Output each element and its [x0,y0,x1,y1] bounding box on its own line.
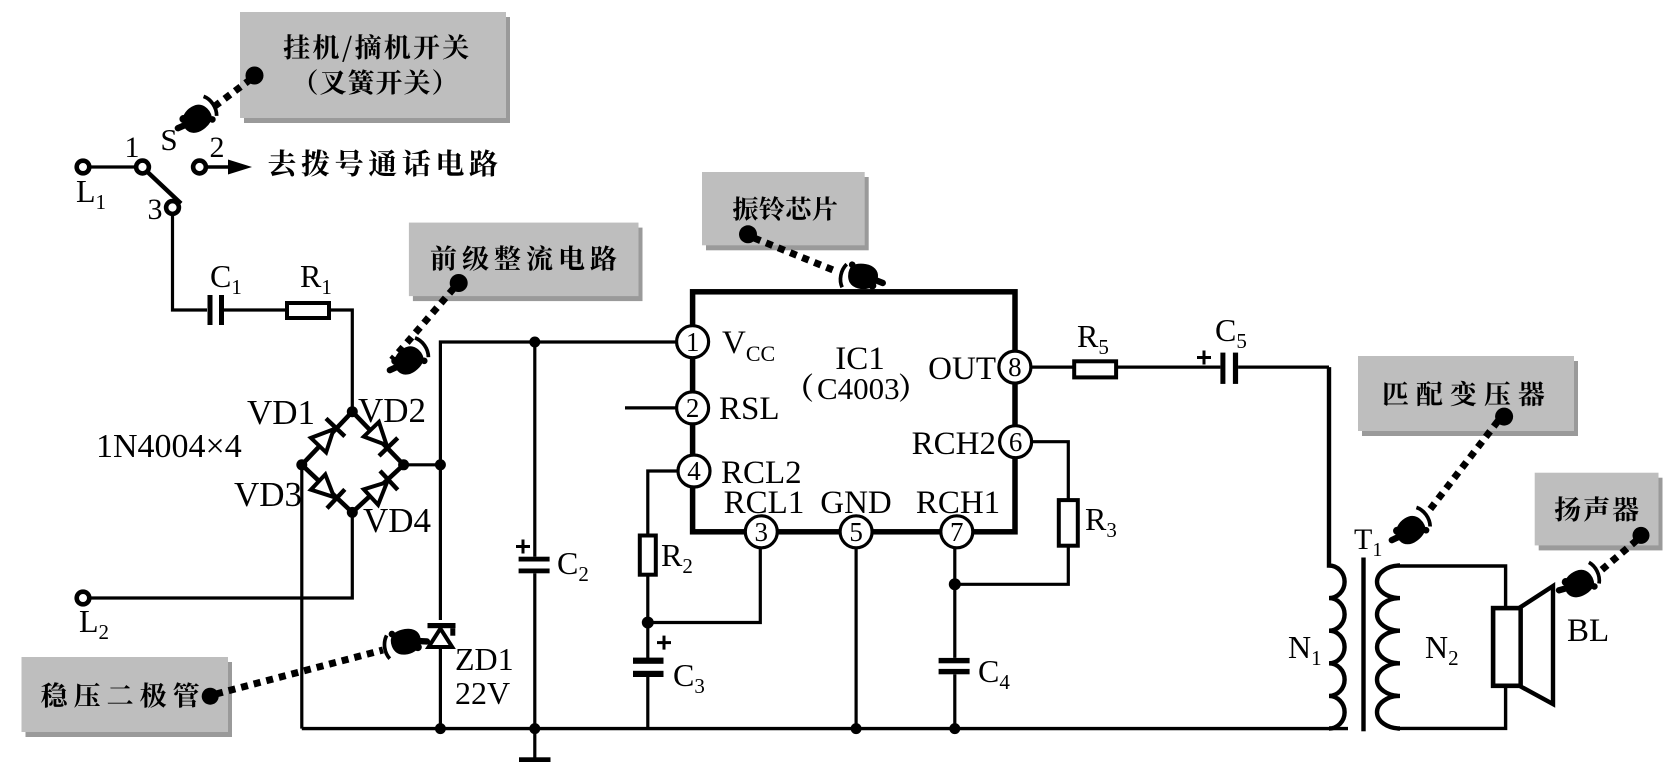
svg-text:VD3: VD3 [234,475,302,514]
wire C4 to ground rail [953,674,956,728]
callout box 挂机/摘机开关（叉簧开关） [240,12,510,123]
svg-text:N1: N1 [1288,629,1322,670]
junction at riser [435,459,446,470]
resistor R5 [1074,361,1116,377]
label RCH1 [916,485,1000,521]
wire junction to R3 [955,546,1069,585]
label R5 [1077,318,1109,359]
arrow to dialing circuit [207,160,253,175]
junction pin5 ground [851,723,862,734]
callout box 前级整流电路 [409,223,643,302]
dotted leader to IC [754,238,838,272]
resistor R2 [640,536,656,575]
capacitor C3 polarity + [657,636,671,650]
wire pin 4 to R2 [648,471,678,536]
bridge edge L-B [302,465,353,513]
label 22V [455,675,510,711]
wire L1 to switch contact 1 [90,165,136,168]
capacitor C4 [939,658,970,674]
svg-text:RSL: RSL [719,391,780,427]
svg-text:ZD1: ZD1 [455,641,514,677]
pin 4 [678,455,710,487]
svg-text:C4: C4 [978,653,1010,694]
svg-text:1: 1 [125,131,140,164]
junction C4 ground [949,723,960,734]
label IC1 [835,341,885,377]
svg-text:3: 3 [755,517,769,547]
diode VD3 [309,473,345,509]
junction top rail / C2 [529,337,540,348]
switch S contact 1 [136,161,149,174]
wire pin 5 to ground rail [854,548,857,729]
label T1 [1354,523,1382,561]
svg-text:VD4: VD4 [363,501,431,540]
wire C5 to transformer primary / transformer T1 primary winding N1 [1238,367,1345,728]
capacitor C5 [1220,353,1238,384]
svg-text:RCH2: RCH2 [912,426,996,462]
speaker BL [1493,586,1553,704]
diode VD2 [362,420,398,456]
leader dot (IC callout) [739,225,757,243]
wire R1 to bridge top [329,310,352,408]
wire junction to pin 3 [648,548,761,623]
bridge node right [398,459,409,470]
svg-text:RCH1: RCH1 [916,485,1000,521]
label VD4 [363,501,431,540]
pin 2 [677,392,709,424]
svg-text:7: 7 [950,517,964,547]
switch S arm [147,172,181,204]
wire bridge bottom node down to L2 wire [90,512,353,598]
capacitor C2 [519,557,550,574]
junction ZD1 ground [435,723,446,734]
svg-text:2: 2 [210,131,225,164]
svg-text:C4003: C4003 [817,371,900,406]
IC U1 IC1 (C4003) body [693,292,1015,532]
svg-text:1N4004×4: 1N4004×4 [96,428,242,465]
callout box 扬声器 [1535,473,1663,551]
label N2 [1425,629,1459,670]
svg-text:C3: C3 [673,657,705,698]
pin 6 [1000,426,1032,458]
terminal L1 [77,161,90,174]
label RCH2 [912,426,996,462]
capacitor C3 [633,658,664,677]
diode VD1 [309,418,345,454]
label 去拨号通话电路 [269,149,498,176]
label VD3 [234,475,302,514]
hand pointer (transformer) [1385,505,1435,552]
callout box 振铃芯片 [702,172,869,250]
pin 3 [745,516,777,548]
hand pointer (hook switch) [171,94,222,141]
svg-text:5: 5 [849,517,863,547]
pin 5 [840,516,872,548]
wire C2 bottom [533,573,536,728]
hand pointer (rectifier) [383,336,434,383]
pin 1 [677,326,709,358]
wire contact 3 down to C1 [173,215,208,311]
bridge edge T-R [352,412,403,465]
capacitor C1 [208,295,225,325]
label (C4003) [803,371,908,406]
wire R3 to pin 6 [1032,442,1069,500]
transformer T1 core [1361,558,1365,732]
label BL [1567,613,1609,649]
callout box 稳压二极管 [22,657,233,737]
leader dot (transformer callout) [1495,408,1513,426]
wire secondary loop to speaker [1400,566,1506,728]
hand pointer (IC) [839,260,886,294]
label VD2 [358,391,426,430]
svg-text:L2: L2 [79,603,109,644]
svg-text:GND: GND [820,485,892,521]
leader dot (zener callout) [202,688,219,705]
ground rail wire [302,727,1348,730]
svg-text:OUT: OUT [928,351,996,387]
svg-text:8: 8 [1008,352,1022,382]
wire R5 to C5 [1116,366,1220,369]
dotted leader to switch [215,79,251,106]
switch S contact 3 [166,201,179,214]
zener ZD1 [429,629,453,647]
wire pin 8 to R5 [1031,366,1074,369]
label L2 [79,603,109,644]
leader dot (hook switch callout) [246,67,264,85]
svg-text:VD2: VD2 [358,391,426,430]
svg-text:3: 3 [148,193,163,226]
dotted leader to T1 [1428,421,1498,512]
label 3 [148,193,163,226]
wire bridge left node down to ground rail [300,465,303,729]
bridge node left [296,459,307,470]
dotted leader to bridge [392,288,454,360]
pin 2 stub wire [625,406,677,409]
transformer T1 secondary winding N2 [1377,566,1400,729]
wire C1 to R1 [224,308,287,311]
capacitor C2 polarity + [516,540,530,554]
label C2 [557,545,589,586]
wire ZD1 to ground rail [439,647,442,729]
svg-text:N2: N2 [1425,629,1459,670]
bridge edge L-T [302,412,353,465]
label N1 [1288,629,1322,670]
label RCL1 [724,485,805,521]
svg-text:4: 4 [687,456,701,486]
svg-text:C1: C1 [210,258,242,299]
label OUT [928,351,996,387]
label R3 [1085,501,1117,542]
ground symbol [519,729,551,762]
svg-text:R5: R5 [1077,318,1109,359]
diode VD4 [362,471,398,507]
label L1 [76,173,106,214]
svg-text:2: 2 [686,393,700,423]
label ZD1 [455,641,514,677]
label VCC [722,325,775,366]
label VD1 [247,393,315,432]
+V riser wire [440,342,676,620]
junction C2 ground [529,723,540,734]
pin 7 [941,516,973,548]
bridge edge B-R [352,465,403,513]
label RCL2 [721,455,802,491]
svg-text:22V: 22V [455,675,510,711]
label GND [820,485,892,521]
wire bridge right node to +rail riser [404,463,441,466]
svg-text:6: 6 [1009,427,1023,457]
label C5 [1215,312,1247,353]
wire pin 7 down [953,548,956,658]
terminal L2 [77,592,90,605]
svg-text:R1: R1 [300,258,332,299]
svg-text:C2: C2 [557,545,589,586]
svg-text:1: 1 [686,327,700,357]
dotted leader to BL [1598,540,1637,573]
callout box 匹配变压器 [1358,356,1578,436]
svg-text:BL: BL [1567,613,1609,649]
junction R2/C3/pin3 [642,617,654,629]
label R2 [661,537,693,578]
dotted leader to ZD1 [216,650,383,694]
label 1 [125,131,140,164]
svg-text:R3: R3 [1085,501,1117,542]
switch S contact 2 [193,161,206,174]
label C1 [210,258,242,299]
hand pointer (speaker) [1554,561,1604,605]
label R1 [300,258,332,299]
leader dot (rectifier callout) [450,274,468,292]
resistor R3 [1059,500,1078,546]
label 1N4004x4 [96,428,242,465]
svg-text:R2: R2 [661,537,693,578]
leader dot (speaker callout) [1633,527,1650,544]
bridge node top [347,406,358,417]
pin 8 [999,351,1031,383]
svg-text:T1: T1 [1354,523,1382,561]
junction pin7/R3/C4 [949,578,961,590]
resistor R1 [287,303,329,318]
wire C3 to ground rail [646,677,649,729]
bridge node bottom [347,507,358,518]
label S [160,122,177,157]
svg-text:C5: C5 [1215,312,1247,353]
label C4 [978,653,1010,694]
label C3 [673,657,705,698]
wire C2 top [533,342,536,557]
label RSL [719,391,780,427]
svg-text:L1: L1 [76,173,106,214]
hand pointer (zener) [382,626,428,660]
svg-text:RCL1: RCL1 [724,485,805,521]
wire R2 to junction [646,575,649,658]
svg-text:VD1: VD1 [247,393,315,432]
zener ZD1 cathode bar [428,623,456,636]
label 2 [210,131,225,164]
capacitor C5 polarity + [1197,351,1211,365]
